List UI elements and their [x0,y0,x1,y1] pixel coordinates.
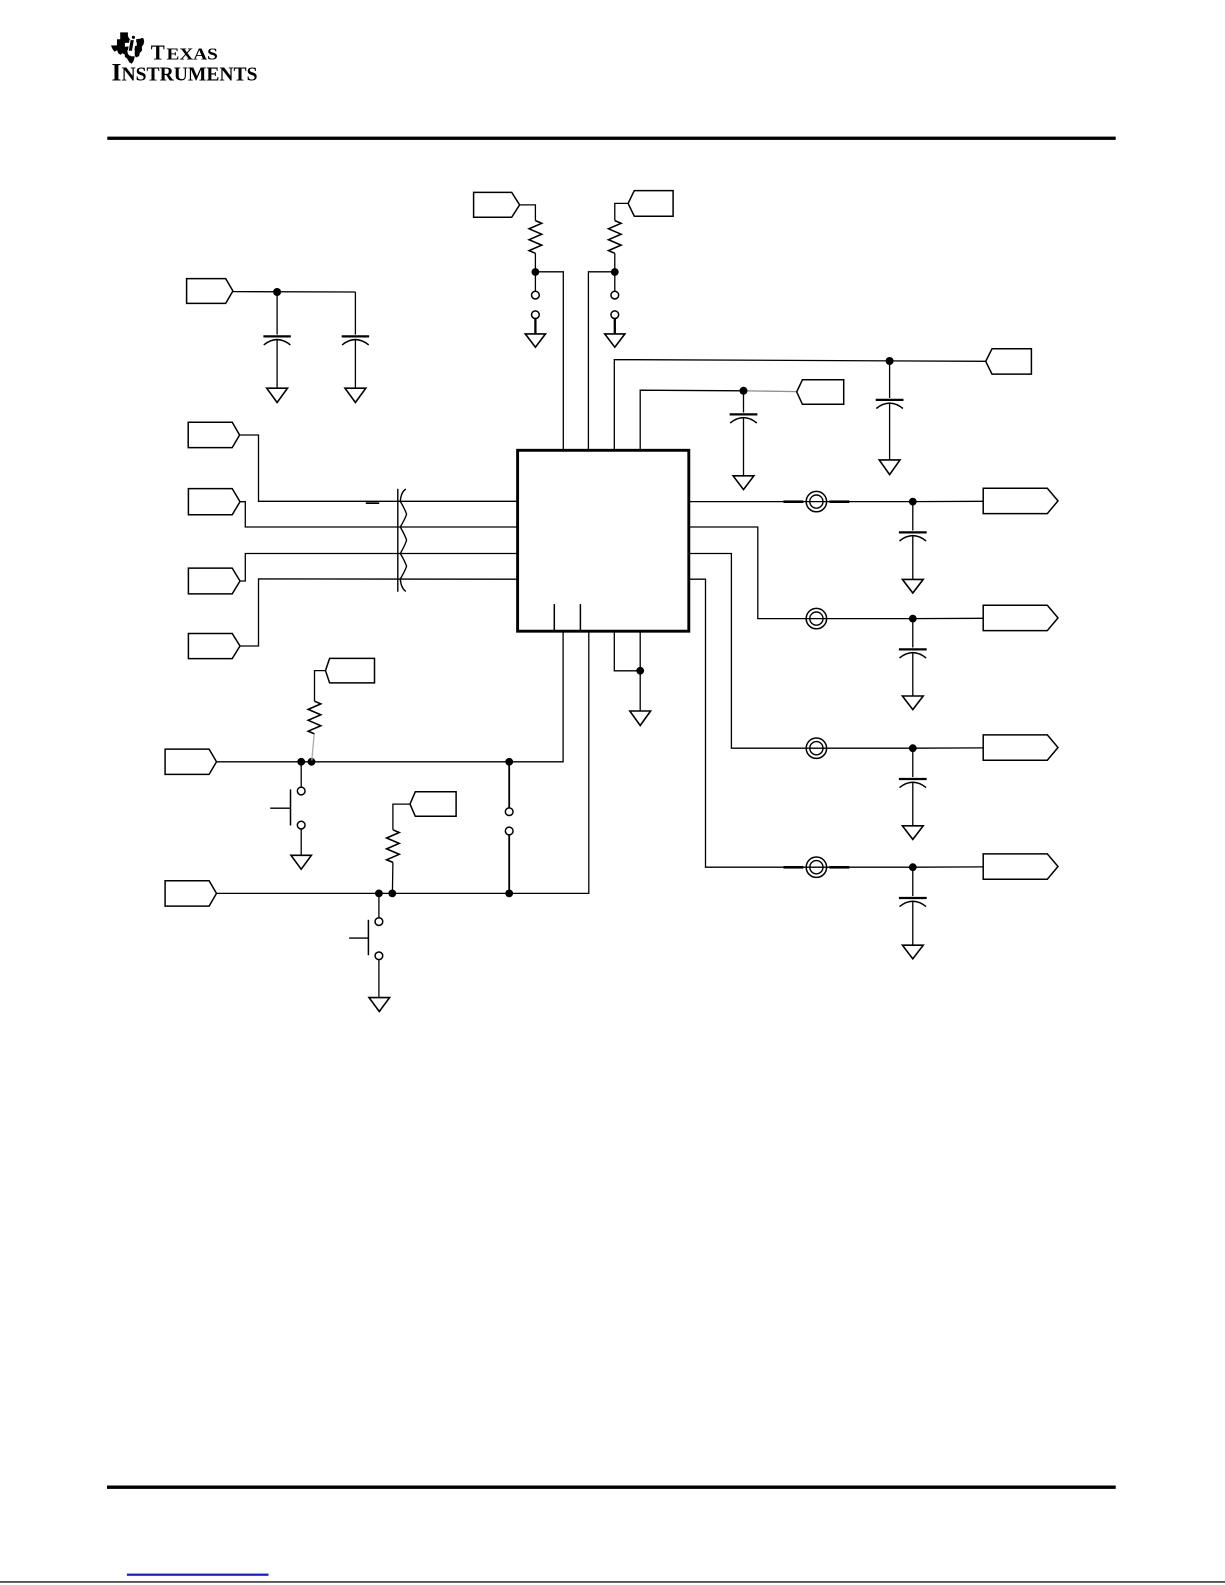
capacitor C5 [899,502,927,580]
IC internal pin tick 2 [579,604,581,630]
wire control-1 to IC pin B1 [217,631,564,762]
wire node B to IC pin T2 [588,272,614,451]
wire net W2 (pin T4 to tag) [640,390,743,450]
node output-1 [909,498,917,506]
ground C6 [902,696,923,710]
ground C4 [733,476,754,490]
wire net W1 (pin T3 to tag) [614,360,985,451]
capacitor C3 [876,361,904,460]
node output-3 [909,744,917,752]
svg-text:EXAS: EXAS [167,45,218,64]
IC internal pin tick 1 [553,604,555,630]
node control-2 switch [375,890,383,898]
ground C5 [902,579,923,593]
tag channel-2 input [188,489,240,515]
ground arrow JB [605,334,625,347]
jumper JB [611,272,619,334]
svg-text:I: I [112,58,122,87]
node A [532,268,540,276]
dash right of bead FB1 [829,500,849,503]
capacitor C2 [342,292,369,388]
resistor R3 [308,701,321,734]
tag output-1 [983,488,1058,513]
ground SW1 [291,855,311,869]
tag pullup-A [474,192,520,217]
ground SW2 [369,998,390,1012]
ground C1 [267,388,288,402]
ferrite bead FB3 [806,738,826,758]
TI logo wordmark TEXAS [112,41,258,87]
capacitor C7 [899,748,927,826]
node W2 junction [740,387,748,395]
tag W2 [797,380,844,405]
node IC ground junction [636,667,644,675]
node W1 junction [886,357,894,365]
ground IC [630,711,651,726]
resistor R4 [387,830,400,863]
node B [611,268,619,276]
svg-text:NSTRUMENTS: NSTRUMENTS [122,64,258,86]
schematic group [165,191,1058,1012]
wire channel-1 to IC [240,435,518,501]
node control-2 jumper [505,890,513,898]
node control-1 jumper [505,758,513,766]
pushbutton SW2 [349,893,383,997]
node control-1 resistor [308,758,316,766]
bus crossing bar [397,489,399,592]
tag output-3 [983,735,1058,760]
ferrite bead FB4 [806,857,826,877]
wire R3 lead gray [312,734,314,761]
pushbutton SW1 [270,762,305,856]
wire output-2 from IC [689,527,983,619]
wire node A to IC pin T1 [535,272,563,451]
svg-text:T: T [151,41,165,65]
ground C7 [902,826,923,840]
node control-1 switch [297,758,305,766]
footer rule [107,1486,1116,1489]
resistor R2 [609,221,622,254]
dash right of bead FB4 [829,866,849,869]
wire control-2 to IC pin B2 [217,631,589,893]
ground C3 [879,460,900,475]
bus crossing squiggle [400,489,406,591]
dash left of bead FB4 [784,866,804,869]
tag output-2 [983,605,1058,630]
IC bottom pins 3-4 to ground [614,631,640,711]
wire tagB to R2 [615,203,628,220]
wire W2 gray segment [744,390,797,393]
wire R4 lead [391,862,394,893]
node VCC junction [273,288,281,296]
tag pullup-B [628,191,673,217]
tag W1 [986,349,1032,374]
capacitor C6 [899,619,927,696]
wire tagC to R3 [315,671,326,702]
wire output-3 from IC [689,554,983,749]
resistor R1 [529,221,542,254]
wire output-4 from IC [689,579,983,867]
ground arrow JA [525,334,545,347]
tag pullup-C [326,658,375,683]
capacitor C1 [263,292,290,388]
ground C8 [902,945,923,959]
TI logo Texas-state icon [111,32,144,63]
capacitor C8 [899,867,927,945]
jumper J1 [505,762,513,894]
bottom window edge [0,1581,1225,1583]
capacitor C4 [730,391,758,476]
ferrite bead FB1 [806,491,826,511]
wire R1 to node [534,253,536,272]
tag channel-1 input [188,422,239,447]
tag control-2 input [165,881,216,906]
wire channel-3 to IC [240,554,518,582]
header rule [107,137,1115,140]
wire tagA to R1 [520,205,536,221]
IC U1 [518,450,689,631]
footer link underline [127,1574,269,1576]
jumper JA [532,272,540,334]
tag pullup-D [410,792,456,817]
wire output-1 from IC [689,500,983,502]
dash mark on channel-1 wire [366,502,379,504]
wire channel-2 to IC [240,502,518,527]
ground C2 [345,388,366,402]
tag control-1 input [165,749,216,774]
tag channel-4 input [188,634,240,659]
node output-4 [909,863,917,871]
node control-2 resistor [388,890,396,898]
wire VCC [233,291,356,293]
tag channel-3 input [188,568,240,594]
wire tagD to R4 [393,804,410,830]
dash left of bead FB1 [784,500,804,503]
tag output-4 [983,854,1058,879]
wire channel-4 to IC [240,579,518,646]
ferrite bead FB2 [806,608,826,628]
tag VCC input [187,279,233,304]
node output-2 [909,615,917,623]
wire R2 to node [614,253,616,272]
